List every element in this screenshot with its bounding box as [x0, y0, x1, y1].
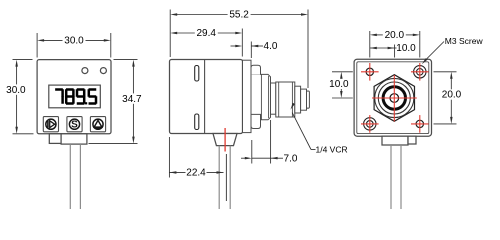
extension line 29.4 — [241, 29, 243, 57]
extension lines 55.2 — [169, 10, 171, 58]
side cable — [218, 146, 220, 209]
svg-text:1/4 VCR: 1/4 VCR — [316, 145, 348, 155]
screw hole bottom-right — [411, 115, 429, 133]
svg-text:30.0: 30.0 — [64, 36, 84, 47]
dimension 10.0 left — [327, 72, 350, 98]
front cable — [69, 144, 71, 209]
VCR gland step 2 — [301, 89, 307, 110]
side view parting line — [204, 60, 206, 134]
svg-text:S: S — [71, 120, 78, 131]
back view body inner — [357, 62, 429, 134]
extension lines 20.0 right — [434, 71, 457, 73]
front cable gland small block — [49, 134, 61, 144]
extension lines 10.0 left — [332, 71, 353, 73]
dimension 29.4 body length — [170, 28, 242, 39]
side view body — [170, 60, 243, 134]
svg-text:55.2: 55.2 — [229, 10, 249, 21]
button 1 (run) — [43, 117, 58, 132]
dimension 4.0 plate — [231, 41, 278, 52]
indicator hole left — [82, 68, 88, 74]
svg-text:10.0: 10.0 — [329, 79, 349, 90]
fitting center hole — [390, 94, 399, 103]
svg-text:34.7: 34.7 — [122, 94, 142, 105]
fitting bore ring (thick) — [383, 87, 405, 109]
svg-text:29.4: 29.4 — [196, 28, 216, 39]
back view plate outer — [354, 59, 431, 136]
button 3 (up) — [90, 117, 105, 132]
back cable — [390, 145, 392, 209]
fitting circle outer — [375, 78, 414, 117]
extension line 4.0 right — [250, 42, 252, 59]
svg-text:20.0: 20.0 — [442, 90, 462, 101]
display digit 9 — [77, 90, 84, 104]
hex nut face lines — [260, 74, 262, 119]
front view body — [37, 60, 111, 134]
screw hole top-left — [361, 63, 379, 81]
dimension 34.7 overall height — [120, 60, 143, 144]
svg-text:30.0: 30.0 — [6, 85, 26, 96]
center crosshair red — [372, 97, 417, 99]
extension lines 30.0 top — [36, 33, 38, 58]
side slot top — [195, 66, 199, 82]
extension lines 34.7 right — [114, 59, 138, 61]
svg-text:22.4: 22.4 — [186, 168, 206, 179]
red centerline — [224, 128, 226, 152]
display digit 8 — [66, 90, 73, 104]
dimension 7.0 — [251, 140, 253, 164]
hex nut side profile — [251, 74, 271, 119]
svg-text:4.0: 4.0 — [264, 41, 278, 52]
dimension 55.2 overall length — [170, 10, 308, 21]
extension line center top — [394, 45, 396, 58]
dimension 30.0 width front — [37, 36, 111, 47]
extension lines 30.0 left — [13, 59, 33, 61]
M3 screw top-right — [411, 63, 429, 81]
display decimal point — [85, 102, 87, 104]
display digit 5 — [89, 90, 96, 104]
fitting circle mid — [378, 82, 410, 114]
dimension 30.0 height front — [4, 60, 27, 134]
label 1/4 VCR with leader — [291, 103, 348, 155]
plate tab bottom — [251, 114, 261, 128]
display digit 7 — [56, 90, 62, 103]
VCR gland tip — [307, 91, 310, 108]
side cable gland trapezoid — [213, 134, 237, 146]
VCR gland step 1 — [295, 86, 301, 113]
back cable gland main block — [382, 136, 408, 145]
plate tab top — [251, 65, 261, 74]
svg-text:10.0: 10.0 — [396, 43, 416, 54]
hex fitting back view — [374, 75, 414, 122]
mounting plate edge — [243, 60, 252, 132]
LCD display frame — [49, 85, 101, 108]
dimension 20.0 right — [440, 72, 463, 124]
side slot bottom — [195, 114, 199, 130]
dimension 10.0 top — [370, 43, 416, 54]
indicator hole right — [100, 68, 106, 74]
side cable inner line — [225, 154, 227, 201]
dimension 20.0 screw spacing top — [370, 30, 420, 41]
M3 screw bottom-left — [361, 115, 379, 133]
svg-text:7.0: 7.0 — [284, 153, 298, 164]
dimension 22.4 cable offset — [168, 137, 170, 178]
svg-text:M3 Screw: M3 Screw — [445, 36, 484, 46]
label M3 Screw with leader — [422, 36, 484, 64]
front cable gland main block — [61, 134, 87, 144]
svg-text:20.0: 20.0 — [385, 30, 405, 41]
extension lines 20.0 top — [369, 31, 371, 58]
button 2 (set) — [67, 117, 82, 132]
VCR gland rings and body — [276, 82, 295, 117]
back cable gland small block — [408, 136, 416, 144]
VCR gland washer — [271, 83, 276, 114]
